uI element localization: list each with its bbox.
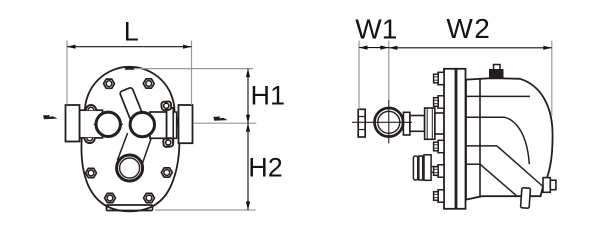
W2 extension line right <box>551 41 553 116</box>
right pipe bottom lug <box>163 138 173 147</box>
left pipe opening circle <box>96 112 120 136</box>
svg-text:H2: H2 <box>248 153 283 183</box>
dimension H2 line <box>247 123 249 210</box>
nameplate (rotated) <box>119 87 145 126</box>
mounting tab <box>521 188 531 209</box>
right pipe step <box>173 112 176 138</box>
bottom extension line <box>155 209 256 211</box>
hex nut mid-right <box>161 168 172 177</box>
plate bolt 4 <box>434 165 444 177</box>
svg-text:L: L <box>124 17 139 47</box>
dome inner vertical line <box>479 78 481 196</box>
side pipe collar at circle <box>403 112 410 135</box>
dimension W1 line <box>359 47 389 49</box>
dome cone diagonal 2 <box>480 164 517 196</box>
W1/W2 shared extension line <box>388 41 390 101</box>
bottom foot bracket <box>107 205 153 211</box>
front view body outline <box>81 67 179 212</box>
plate bolt 3 <box>434 140 444 152</box>
right flange <box>179 105 193 143</box>
dome section line 3 <box>466 145 497 147</box>
side pipe flange collar <box>425 108 435 139</box>
flange plate <box>444 69 466 209</box>
left drain valve bars <box>413 156 417 180</box>
top plug hex <box>490 70 504 79</box>
hex nut bottom-right <box>144 193 155 202</box>
dome cone diagonal 1 <box>497 146 543 187</box>
left flange <box>66 105 80 142</box>
flow arrow right <box>213 117 228 121</box>
right pipe collar <box>167 108 174 143</box>
dimension W2 line <box>389 47 552 49</box>
left circle centerline ticks <box>94 123 96 125</box>
right pipe opening circle <box>130 112 154 136</box>
H1 top extension line <box>134 68 253 70</box>
svg-text:H1: H1 <box>251 81 286 111</box>
plate bolt 1 <box>434 72 444 84</box>
L extension line left <box>66 41 68 105</box>
side flange edge-on <box>358 109 365 137</box>
hex nut top-right <box>143 79 154 88</box>
plate bolt 5 <box>434 190 444 202</box>
hex nut top-left <box>104 79 115 88</box>
internal diagonal line left of center circle <box>117 133 127 161</box>
svg-text:W2: W2 <box>446 13 491 44</box>
dimension H1 line <box>247 69 249 124</box>
circle vertical centerline <box>388 100 390 143</box>
body dome outline <box>466 78 553 199</box>
left pipe bottom lug <box>85 138 95 143</box>
hex nut mid-left <box>86 168 97 177</box>
L extension line right <box>191 41 193 106</box>
top lug on body apex <box>125 67 135 70</box>
center extension line <box>194 122 257 124</box>
svg-text:W1: W1 <box>355 13 397 44</box>
center circle (cover plug) <box>117 155 143 181</box>
circle horizontal centerline <box>352 121 412 123</box>
hex nut bottom-left <box>105 193 116 202</box>
dome section line 4 <box>466 163 480 165</box>
right pipe body <box>150 112 167 138</box>
left pipe top lug <box>86 105 96 110</box>
side pipe neck <box>410 116 425 132</box>
right pipe top lug <box>161 101 171 110</box>
dimension L line <box>67 46 192 48</box>
dome inner arc <box>505 117 530 164</box>
bottom right plug <box>543 178 550 193</box>
side pipe stub to plate <box>435 113 445 134</box>
dome section line 2 <box>466 116 505 118</box>
left pipe body <box>80 110 103 138</box>
flange plate joint band <box>455 69 458 209</box>
internal diagonal line right of center circle <box>142 137 152 167</box>
flow arrow left <box>43 115 58 119</box>
plate bolt 2 <box>434 96 444 108</box>
dome section line 1 <box>466 95 530 97</box>
side pipe circle <box>375 108 404 137</box>
W1 extension line left <box>358 41 360 110</box>
top plug cap <box>494 65 501 71</box>
